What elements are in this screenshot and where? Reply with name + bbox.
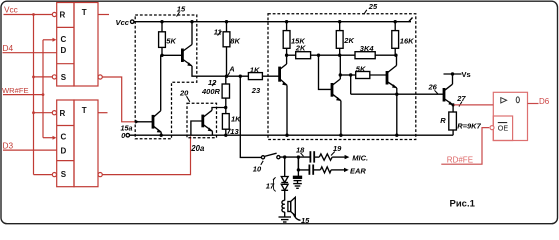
svg-text:10: 10 (253, 165, 262, 174)
svg-text:T: T (82, 106, 87, 115)
svg-text:1K: 1K (250, 66, 260, 75)
svg-text:20: 20 (179, 89, 189, 98)
svg-text:Рис.1: Рис.1 (450, 199, 476, 210)
svg-text:D: D (61, 46, 67, 55)
svg-text:Vcc: Vcc (4, 5, 18, 15)
svg-text:0: 0 (121, 131, 125, 140)
svg-text:13: 13 (230, 127, 239, 136)
svg-text:D3: D3 (3, 140, 14, 150)
svg-text:S: S (61, 170, 67, 179)
svg-text:26: 26 (428, 83, 438, 92)
svg-text:R: R (440, 116, 446, 125)
svg-text:MIC.: MIC. (352, 153, 368, 162)
svg-text:R: R (60, 11, 66, 20)
svg-text:D6: D6 (539, 97, 550, 106)
svg-text:2K: 2K (343, 36, 354, 45)
svg-text:Vcc: Vcc (116, 18, 130, 27)
svg-text:5K: 5K (166, 37, 176, 46)
svg-text:15: 15 (177, 4, 186, 13)
svg-text:2K: 2K (295, 44, 306, 53)
svg-text:R=9K7: R=9K7 (457, 122, 481, 131)
svg-text:15: 15 (301, 216, 310, 225)
svg-text:C: C (61, 35, 67, 44)
svg-text:5K: 5K (356, 65, 366, 74)
svg-text:D: D (61, 146, 67, 155)
svg-text:OE: OE (498, 123, 509, 132)
svg-text:S: S (61, 73, 67, 82)
svg-text:EAR: EAR (350, 166, 366, 175)
svg-text:3K4: 3K4 (360, 44, 375, 53)
svg-text:Vs: Vs (462, 70, 471, 79)
svg-text:WR#FE: WR#FE (2, 86, 29, 95)
svg-text:23: 23 (251, 86, 261, 95)
svg-text:400R: 400R (201, 87, 221, 96)
svg-text:16K: 16K (400, 36, 414, 45)
svg-text:1K: 1K (231, 114, 241, 123)
svg-text:8K: 8K (230, 37, 240, 46)
svg-text:R: R (60, 109, 66, 118)
svg-text:20a: 20a (190, 144, 205, 153)
svg-text:T: T (82, 8, 87, 17)
svg-text:D4: D4 (3, 43, 14, 53)
svg-text:C: C (61, 133, 67, 142)
svg-text:RD#FE: RD#FE (447, 156, 473, 165)
svg-text:27: 27 (456, 94, 466, 103)
svg-text:25: 25 (368, 2, 378, 11)
